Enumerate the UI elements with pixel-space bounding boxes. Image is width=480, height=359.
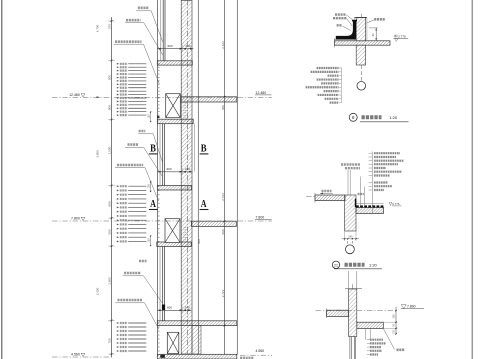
svg-text:700: 700 xyxy=(107,338,111,343)
svg-text:600: 600 xyxy=(197,239,201,244)
svg-text:B: B xyxy=(201,142,207,154)
svg-text:21: 21 xyxy=(334,263,338,267)
svg-text:500: 500 xyxy=(107,229,111,234)
svg-text:4.560: 4.560 xyxy=(256,349,265,353)
svg-text:B: B xyxy=(150,142,156,154)
svg-text:1:20: 1:20 xyxy=(389,115,398,120)
svg-text:2,600: 2,600 xyxy=(95,287,99,295)
svg-text:100: 100 xyxy=(393,314,396,319)
svg-text:150: 150 xyxy=(147,238,150,243)
svg-text:4,700: 4,700 xyxy=(95,24,99,32)
svg-text:12.480: 12.480 xyxy=(256,91,267,95)
svg-text:600: 600 xyxy=(167,44,172,48)
svg-text:600: 600 xyxy=(166,167,171,171)
svg-text:4.560: 4.560 xyxy=(71,352,80,356)
svg-text:7.800: 7.800 xyxy=(256,215,265,219)
svg-text:800: 800 xyxy=(107,201,111,206)
svg-text:7.800: 7.800 xyxy=(407,304,416,308)
svg-text:2,423: 2,423 xyxy=(221,41,225,49)
svg-text:0.775: 0.775 xyxy=(392,202,400,206)
svg-text:2,723: 2,723 xyxy=(221,193,225,201)
svg-text:570: 570 xyxy=(107,24,111,29)
svg-text:1,500: 1,500 xyxy=(107,146,111,154)
svg-text:2,723: 2,723 xyxy=(221,289,225,297)
svg-text:A: A xyxy=(201,198,207,210)
svg-text:300: 300 xyxy=(221,105,225,110)
svg-text:8: 8 xyxy=(352,115,355,120)
svg-text:150: 150 xyxy=(147,114,150,119)
svg-text:1,500: 1,500 xyxy=(107,277,111,285)
svg-text:3,900: 3,900 xyxy=(95,150,99,158)
svg-text:7.800: 7.800 xyxy=(71,217,80,221)
svg-text:3.770: 3.770 xyxy=(398,34,406,38)
svg-text:150: 150 xyxy=(147,184,150,189)
svg-text:800: 800 xyxy=(107,105,111,110)
svg-text:12.480: 12.480 xyxy=(69,93,80,97)
svg-text:240: 240 xyxy=(348,236,353,239)
svg-text:1:20: 1:20 xyxy=(369,263,378,268)
svg-text:240: 240 xyxy=(185,167,190,171)
svg-text:600: 600 xyxy=(167,306,172,310)
svg-text:600: 600 xyxy=(221,229,225,234)
svg-text:A: A xyxy=(150,198,156,210)
svg-text:240: 240 xyxy=(185,44,190,48)
svg-text:500: 500 xyxy=(107,75,111,80)
svg-text:240: 240 xyxy=(184,306,189,310)
